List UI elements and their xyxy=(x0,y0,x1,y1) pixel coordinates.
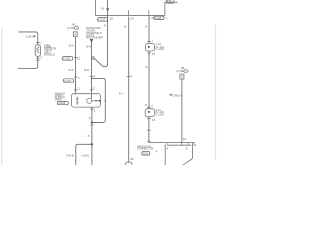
svg-text:C-127: C-127 xyxy=(64,79,71,83)
svg-text:16: 16 xyxy=(110,17,114,21)
svg-text:15: 15 xyxy=(130,17,134,21)
svg-text:4: 4 xyxy=(94,74,96,78)
svg-text:C-125: C-125 xyxy=(63,57,70,61)
svg-text:1,03-8: 1,03-8 xyxy=(25,34,34,38)
svg-text:1: 1 xyxy=(78,86,80,90)
svg-text:8: 8 xyxy=(186,147,188,151)
svg-text:C-115: C-115 xyxy=(155,16,162,20)
svg-text:4: 4 xyxy=(167,146,169,150)
svg-text:16: 16 xyxy=(183,137,187,141)
svg-text:B: B xyxy=(89,116,91,120)
svg-text:B-W: B-W xyxy=(86,44,92,48)
svg-text:CONNECTOR: CONNECTOR xyxy=(137,147,154,151)
svg-text:2: 2 xyxy=(40,56,42,60)
svg-text:1: 1 xyxy=(166,17,168,20)
svg-text:4: 4 xyxy=(131,74,133,78)
svg-text:15: 15 xyxy=(152,52,156,56)
svg-text:): ) xyxy=(188,70,189,73)
svg-text:B: B xyxy=(146,65,148,69)
svg-text:B: B xyxy=(88,134,90,138)
svg-text:C-109): C-109) xyxy=(155,113,163,117)
svg-text:B: B xyxy=(145,103,147,107)
svg-text:10: 10 xyxy=(77,57,81,61)
svg-text:1,R02-8: 1,R02-8 xyxy=(172,93,183,97)
svg-text:2: 2 xyxy=(94,108,96,112)
svg-text:(FUSE: (FUSE xyxy=(177,70,185,73)
svg-text:): ) xyxy=(78,27,79,30)
svg-text:B-W: B-W xyxy=(84,68,90,72)
svg-text:(FUSE: (FUSE xyxy=(67,27,75,30)
svg-text:AND WASHER: AND WASHER xyxy=(86,37,103,40)
svg-text:C-113: C-113 xyxy=(99,18,106,22)
svg-text:C-104): C-104) xyxy=(156,47,164,51)
svg-text:B-W: B-W xyxy=(69,43,75,47)
svg-text:0.85-B: 0.85-B xyxy=(81,153,89,157)
svg-text:1: 1 xyxy=(40,41,42,45)
svg-text:1-6: 1-6 xyxy=(100,7,104,11)
svg-text:B: B xyxy=(104,24,106,27)
svg-text:1: 1 xyxy=(151,38,153,42)
svg-text:D-20: D-20 xyxy=(143,152,149,156)
svg-text:B: B xyxy=(124,24,126,28)
svg-text:B-Y: B-Y xyxy=(119,92,124,96)
svg-text:1: 1 xyxy=(195,143,197,147)
svg-text:1: 1 xyxy=(151,103,153,107)
svg-text:28: 28 xyxy=(130,157,134,161)
svg-text:MODELS): MODELS) xyxy=(44,55,55,57)
svg-text:4: 4 xyxy=(78,76,80,80)
svg-text:0.85-B: 0.85-B xyxy=(66,153,74,157)
svg-text:3: 3 xyxy=(93,86,95,90)
svg-text:B-W: B-W xyxy=(69,68,75,72)
svg-text:B: B xyxy=(145,24,147,28)
svg-text:C-162: C-162 xyxy=(59,101,66,105)
svg-text:15: 15 xyxy=(152,118,156,122)
